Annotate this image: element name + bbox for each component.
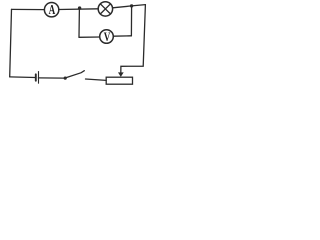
svg-text:A: A xyxy=(49,3,56,18)
voltmeter V circle xyxy=(100,30,114,44)
node junction dot right xyxy=(130,4,133,7)
switch blade xyxy=(66,71,84,78)
switch pivot dot xyxy=(64,77,67,80)
battery cell long plate xyxy=(38,72,40,84)
arrowhead of rheostat slider xyxy=(118,72,124,77)
wire lamp to right junction xyxy=(113,5,146,8)
wire top left to ammeter xyxy=(12,8,45,10)
battery cell short plate xyxy=(35,74,37,80)
lamp X cross xyxy=(100,4,110,14)
wire switch to rheostat xyxy=(86,79,107,80)
svg-text:V: V xyxy=(104,29,111,44)
lamp circle xyxy=(98,2,112,16)
wire voltmeter branch right horizontal xyxy=(113,35,131,37)
wire bottom left to battery xyxy=(10,76,35,79)
node junction dot left xyxy=(78,6,81,9)
wire battery to switch xyxy=(38,77,63,79)
wire left vertical side xyxy=(10,9,12,76)
rheostat box R xyxy=(106,77,132,84)
wire voltmeter branch left vertical xyxy=(78,8,80,37)
ammeter U circle xyxy=(44,3,58,17)
wire voltmeter branch left horizontal xyxy=(79,36,100,38)
wire right vertical side down xyxy=(121,5,146,74)
wire ammeter to lamp xyxy=(59,8,98,11)
wire voltmeter branch right vertical xyxy=(130,6,132,36)
